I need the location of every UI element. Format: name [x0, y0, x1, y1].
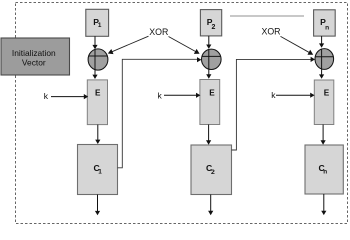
- wire E1 to C1: [95, 125, 100, 144]
- wire Pn to XOR3: [319, 36, 324, 48]
- svg-text:k: k: [271, 90, 276, 100]
- wire E3 to Cn: [321, 125, 326, 145]
- xor circle 2: [202, 49, 222, 69]
- svg-text:Vector: Vector: [22, 57, 46, 67]
- output arrow C1: [95, 195, 100, 216]
- feedback wire C1 to XOR2: [118, 57, 202, 168]
- callout line XOR to circle2: [169, 37, 200, 54]
- box P1: [86, 9, 109, 36]
- wire P2 to XOR2: [206, 36, 211, 49]
- svg-text:k: k: [44, 91, 49, 101]
- wire XOR2 to E2: [206, 70, 211, 79]
- initialization vector box: [1, 38, 70, 75]
- wire XOR3 to E3: [319, 69, 324, 78]
- output arrow C2: [208, 195, 213, 216]
- continuation line between P2 and Pn: [230, 15, 304, 17]
- svg-text:E: E: [95, 88, 101, 97]
- wire k to E2: [164, 93, 200, 98]
- box E3: [314, 80, 334, 125]
- svg-text:E: E: [324, 88, 330, 97]
- wire k to E3: [276, 93, 315, 98]
- svg-text:2: 2: [211, 169, 215, 176]
- svg-text:n: n: [323, 169, 327, 176]
- xor circle 3: [315, 49, 334, 70]
- wire k to E1: [51, 94, 88, 99]
- svg-text:2: 2: [212, 24, 216, 31]
- box E1: [87, 80, 107, 125]
- box C2: [191, 145, 232, 195]
- svg-text:n: n: [325, 24, 329, 31]
- wire P1 to XOR1: [92, 36, 97, 49]
- xor circle 1: [88, 49, 108, 70]
- box C1: [78, 145, 118, 195]
- svg-text:XOR: XOR: [149, 27, 168, 37]
- box Cn: [305, 145, 343, 194]
- svg-text:1: 1: [98, 168, 102, 175]
- svg-text:E: E: [209, 88, 215, 97]
- box Pn: [314, 10, 336, 36]
- feedback wire C2 to XOR3: [232, 57, 316, 150]
- callout line XOR to circle3: [281, 36, 314, 54]
- svg-text:1: 1: [98, 22, 102, 29]
- callout line XOR to circle1: [108, 36, 149, 54]
- wire E2 to C2: [206, 125, 211, 145]
- svg-text:XOR: XOR: [261, 26, 280, 36]
- wire XOR1 to E1: [92, 70, 97, 79]
- output arrow Cn: [321, 194, 326, 215]
- box P2: [200, 10, 221, 36]
- box E2: [200, 80, 220, 125]
